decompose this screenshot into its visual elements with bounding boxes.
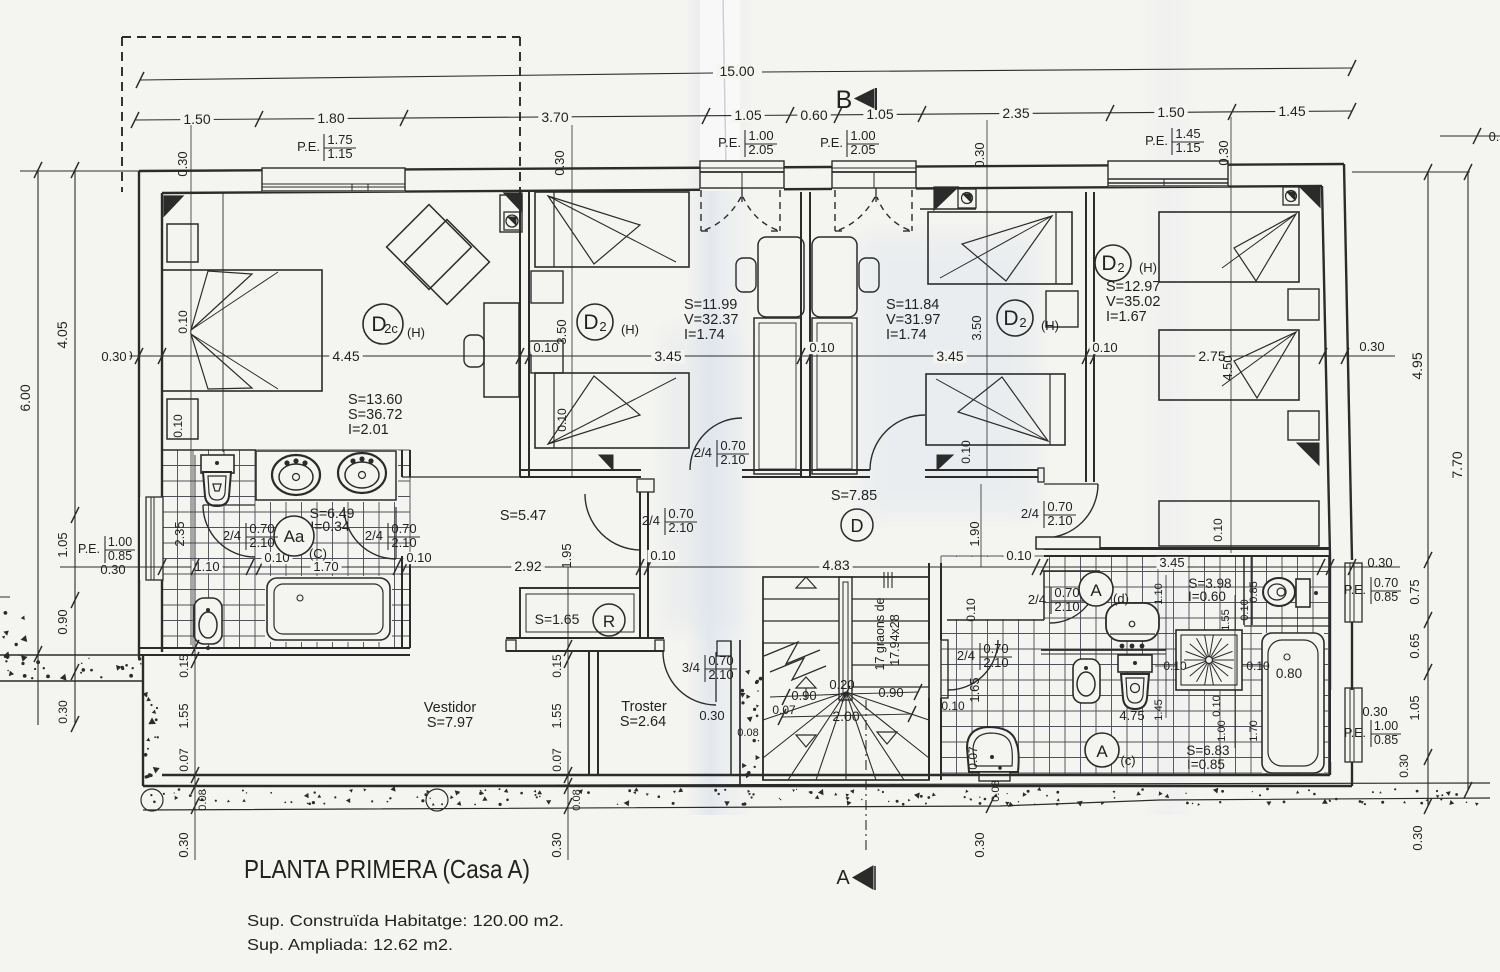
svg-text:1.55: 1.55	[549, 703, 564, 728]
svg-text:1.05: 1.05	[734, 107, 761, 123]
svg-text:4.45: 4.45	[332, 348, 359, 364]
svg-text:2/4: 2/4	[1021, 506, 1039, 521]
svg-text:0.08: 0.08	[197, 789, 209, 810]
svg-text:0.08: 0.08	[571, 789, 583, 810]
svg-text:P.E.: P.E.	[718, 135, 741, 150]
svg-text:I=2.01: I=2.01	[348, 422, 389, 438]
svg-text:P.E.: P.E.	[1344, 726, 1366, 740]
svg-text:1.50: 1.50	[183, 111, 210, 127]
svg-text:3.50: 3.50	[554, 319, 569, 344]
svg-text:4.05: 4.05	[54, 321, 70, 348]
svg-text:S=7.97: S=7.97	[427, 715, 473, 731]
svg-text:1.00: 1.00	[1374, 719, 1398, 733]
svg-text:1.00: 1.00	[1216, 720, 1228, 741]
svg-text:3.50: 3.50	[969, 315, 984, 340]
svg-text:0.30: 0.30	[100, 562, 125, 577]
svg-text:0.10: 0.10	[176, 310, 190, 334]
svg-text:3.45: 3.45	[936, 348, 963, 364]
svg-text:0.08: 0.08	[737, 727, 758, 739]
svg-text:0.70: 0.70	[720, 438, 745, 453]
svg-text:1.00: 1.00	[108, 535, 132, 549]
svg-text:2/4: 2/4	[642, 513, 660, 528]
svg-text:I=0.34: I=0.34	[310, 518, 350, 534]
svg-text:0.70: 0.70	[1374, 576, 1398, 590]
svg-text:P.E.: P.E.	[78, 542, 100, 556]
svg-text:S=1.65: S=1.65	[535, 611, 580, 627]
svg-text:2/4: 2/4	[957, 648, 975, 663]
svg-text:15.00: 15.00	[719, 63, 754, 79]
svg-text:0.70: 0.70	[708, 653, 733, 668]
svg-text:0.30: 0.30	[176, 832, 191, 857]
svg-text:17 graons de: 17 graons de	[873, 597, 887, 670]
svg-text:7.70: 7.70	[1449, 451, 1465, 478]
svg-text:0.85: 0.85	[1374, 590, 1398, 604]
svg-text:I=1.67: I=1.67	[1106, 309, 1147, 325]
svg-text:S=5.47: S=5.47	[500, 508, 546, 524]
svg-text:4.75: 4.75	[1119, 708, 1144, 723]
svg-text:1.55: 1.55	[1220, 609, 1232, 630]
svg-text:0.85: 0.85	[108, 549, 132, 563]
svg-text:(H): (H)	[407, 325, 425, 340]
svg-text:0.65: 0.65	[1407, 633, 1422, 658]
svg-text:1.00: 1.00	[850, 128, 875, 143]
svg-text:PLANTA PRIMERA (Casa A): PLANTA PRIMERA (Casa A)	[244, 854, 530, 884]
svg-text:1.45: 1.45	[1175, 126, 1200, 141]
svg-text:2/4: 2/4	[223, 528, 241, 543]
svg-text:S=11.99: S=11.99	[684, 297, 737, 313]
svg-text:0.10: 0.10	[1006, 548, 1031, 563]
svg-text:0.70: 0.70	[1054, 585, 1079, 600]
svg-text:D: D	[851, 516, 864, 536]
svg-text:1.65: 1.65	[967, 677, 982, 702]
svg-text:0.30: 0.30	[1359, 339, 1384, 354]
svg-text:0.07: 0.07	[550, 748, 564, 772]
svg-text:(H): (H)	[621, 322, 639, 337]
svg-text:Vestidor: Vestidor	[424, 700, 477, 716]
svg-text:1.70: 1.70	[313, 559, 338, 574]
svg-text:Troster: Troster	[621, 699, 667, 715]
svg-text:A: A	[836, 867, 850, 889]
svg-text:V=35.02: V=35.02	[1106, 294, 1160, 310]
svg-text:2: 2	[1019, 315, 1026, 330]
svg-text:(c): (c)	[1120, 753, 1135, 768]
svg-text:R: R	[603, 612, 615, 631]
svg-text:0.15: 0.15	[177, 654, 191, 678]
svg-text:Sup. Construïda Habitatge:: Sup. Construïda Habitatge: 120.00 m2.	[247, 913, 564, 930]
svg-text:P.E.: P.E.	[1145, 133, 1168, 148]
svg-text:0.85: 0.85	[1374, 733, 1398, 747]
svg-text:1.05: 1.05	[866, 106, 893, 122]
svg-text:2/4: 2/4	[694, 445, 712, 460]
svg-text:1.05: 1.05	[55, 532, 70, 557]
svg-text:S=36.72: S=36.72	[348, 407, 402, 423]
svg-text:17.94x28: 17.94x28	[888, 614, 902, 665]
svg-text:A: A	[1090, 581, 1102, 600]
svg-text:0.80: 0.80	[1276, 666, 1302, 681]
svg-text:(d): (d)	[1113, 591, 1129, 606]
svg-text:0.30: 0.30	[549, 832, 564, 857]
svg-text:P.E.: P.E.	[297, 139, 320, 154]
svg-text:0.10: 0.10	[171, 414, 185, 438]
svg-text:1.45: 1.45	[1278, 103, 1305, 119]
svg-text:(C): (C)	[309, 546, 327, 561]
svg-text:6.00: 6.00	[17, 384, 33, 411]
svg-text:S=12.97: S=12.97	[1106, 279, 1160, 295]
svg-text:I=1.74: I=1.74	[684, 327, 725, 343]
svg-text:0.70: 0.70	[983, 641, 1008, 656]
svg-text:1.50: 1.50	[1157, 104, 1184, 120]
svg-text:4.95: 4.95	[1409, 352, 1425, 379]
svg-text:0.70: 0.70	[1047, 499, 1072, 514]
svg-text:0.85: 0.85	[1248, 581, 1260, 602]
svg-text:1.80: 1.80	[317, 110, 344, 126]
svg-text:V=32.37: V=32.37	[684, 312, 738, 328]
svg-text:S=11.84: S=11.84	[886, 297, 939, 313]
svg-text:0.10: 0.10	[650, 548, 675, 563]
svg-text:2: 2	[599, 319, 606, 334]
svg-text:3.45: 3.45	[1159, 555, 1184, 570]
svg-text:3.70: 3.70	[541, 109, 568, 125]
svg-text:0.30: 0.30	[1410, 825, 1425, 850]
svg-text:0.30: 0.30	[56, 700, 70, 724]
svg-text:0.30: 0.30	[1216, 140, 1231, 165]
svg-text:S=6.83: S=6.83	[1186, 743, 1229, 758]
svg-text:1.90: 1.90	[967, 521, 982, 546]
svg-text:1.55: 1.55	[176, 703, 191, 728]
svg-text:I=0.85: I=0.85	[1187, 757, 1225, 772]
svg-text:2.92: 2.92	[514, 558, 541, 574]
svg-text:0.30: 0.30	[1397, 754, 1411, 778]
svg-text:0.10: 0.10	[964, 598, 978, 622]
svg-text:2: 2	[1117, 260, 1124, 275]
svg-text:2/4: 2/4	[365, 528, 383, 543]
svg-text:0.10: 0.10	[1211, 695, 1223, 716]
svg-text:(H): (H)	[1139, 260, 1157, 275]
svg-text:0.75: 0.75	[1407, 579, 1422, 604]
svg-text:0.30: 0.30	[1367, 555, 1392, 570]
svg-text:0.10: 0.10	[1092, 340, 1117, 355]
svg-text:D: D	[1101, 252, 1116, 275]
svg-text:1.10: 1.10	[1153, 583, 1165, 604]
svg-text:B: B	[836, 86, 853, 114]
svg-text:0.10: 0.10	[406, 550, 431, 565]
svg-text:0.70: 0.70	[249, 521, 274, 536]
svg-text:P.E.: P.E.	[1344, 583, 1366, 597]
svg-text:S=13.60: S=13.60	[348, 392, 402, 408]
svg-text:0.20: 0.20	[829, 677, 854, 692]
svg-text:1.95: 1.95	[559, 543, 574, 568]
svg-text:0.30: 0.30	[552, 150, 567, 175]
svg-text:0.60: 0.60	[800, 107, 827, 123]
svg-text:2.35: 2.35	[172, 521, 187, 546]
svg-text:2/4: 2/4	[1028, 592, 1046, 607]
svg-text:0.10: 0.10	[555, 408, 569, 432]
svg-text:0.10: 0.10	[809, 340, 834, 355]
svg-text:(H): (H)	[1041, 318, 1059, 333]
svg-text:1.00: 1.00	[748, 128, 773, 143]
svg-text:0.10: 0.10	[959, 440, 973, 464]
svg-text:0.70: 0.70	[668, 506, 693, 521]
svg-text:0.30: 0.30	[101, 349, 126, 364]
svg-text:0.70: 0.70	[391, 521, 416, 536]
svg-text:0.08: 0.08	[990, 780, 1002, 801]
svg-text:3/4: 3/4	[682, 660, 700, 675]
svg-text:1.75: 1.75	[327, 132, 352, 147]
svg-text:S=7.85: S=7.85	[831, 488, 877, 504]
svg-text:I=0.60: I=0.60	[1188, 589, 1226, 604]
svg-text:Aa: Aa	[284, 527, 305, 546]
svg-text:V=31.97: V=31.97	[886, 312, 940, 328]
svg-text:4.83: 4.83	[822, 557, 849, 573]
svg-text:D: D	[583, 311, 598, 334]
svg-text:0.: 0.	[1489, 129, 1500, 144]
svg-text:2c: 2c	[384, 321, 398, 336]
svg-text:1.45: 1.45	[1153, 699, 1165, 720]
svg-text:0.10: 0.10	[941, 699, 965, 713]
svg-text:4.50: 4.50	[1220, 355, 1235, 380]
svg-text:1.70: 1.70	[1248, 720, 1260, 741]
svg-text:0.15: 0.15	[550, 654, 564, 678]
svg-text:0.30: 0.30	[175, 151, 190, 176]
svg-text:0.30: 0.30	[972, 832, 987, 857]
svg-text:A: A	[1096, 742, 1108, 761]
svg-text:2.35: 2.35	[1002, 105, 1029, 121]
svg-text:0.07: 0.07	[177, 748, 191, 772]
svg-text:1.05: 1.05	[1407, 695, 1422, 720]
svg-text:0.30: 0.30	[699, 708, 724, 723]
svg-text:0.10: 0.10	[1211, 518, 1225, 542]
svg-text:D: D	[1003, 307, 1018, 330]
svg-text:0.07: 0.07	[772, 703, 796, 717]
svg-text:Sup. Ampliada: 12.62 m2.: Sup. Ampliada: 12.62 m2.	[247, 937, 453, 954]
svg-text:0.90: 0.90	[55, 609, 70, 634]
svg-text:P.E.: P.E.	[820, 135, 843, 150]
svg-text:0.07: 0.07	[966, 746, 980, 770]
svg-text:0.30: 0.30	[1362, 704, 1387, 719]
svg-text:I=1.74: I=1.74	[886, 327, 927, 343]
svg-text:0.30: 0.30	[972, 142, 987, 167]
svg-text:3.45: 3.45	[654, 348, 681, 364]
svg-text:S=2.64: S=2.64	[620, 714, 666, 730]
